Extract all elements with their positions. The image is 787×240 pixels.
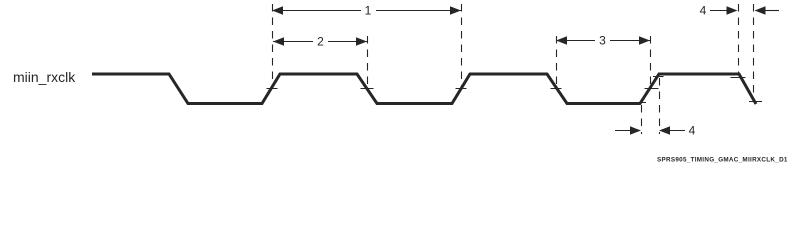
dimension 4 top right tail — [764, 10, 779, 12]
node fall3 mid dashed line — [556, 36, 558, 87]
node rise1 mid dashed line — [272, 4, 274, 87]
svg-text:3: 3 — [599, 34, 606, 48]
dimension 1 right arrowhead — [450, 6, 461, 14]
node rise3 low corner dashed line — [641, 105, 643, 134]
tick fall2 mid — [361, 88, 374, 90]
dimension 4 top left arrowhead — [727, 6, 738, 14]
dimension 4 top left tail — [710, 10, 728, 12]
svg-text:2: 2 — [317, 35, 324, 49]
svg-text:SPRS905_TIMING_GMAC_MIIRXCLK_D: SPRS905_TIMING_GMAC_MIIRXCLK_D1 — [657, 157, 787, 164]
tick rise3 high corner — [653, 76, 664, 78]
tick fall4 high corner — [731, 77, 746, 79]
dimension 2 left arrowhead — [273, 37, 284, 45]
node rise2 mid dashed line — [461, 4, 463, 87]
dimension 3 right arrowhead — [639, 36, 650, 44]
tick fall3 mid — [551, 88, 562, 90]
tick rise2 mid — [456, 88, 467, 90]
wire miin_rxclk waveform — [92, 74, 756, 104]
dimension 4 bottom right arrowhead — [659, 126, 670, 134]
svg-text:miin_rxclk: miin_rxclk — [13, 69, 76, 85]
dimension 4 top right arrowhead — [755, 6, 766, 14]
dimension 3 left arrowhead — [556, 36, 567, 44]
dimension 1 arrow line — [272, 10, 361, 12]
dimension 3 arrow line — [556, 40, 595, 42]
node fall4 low corner dashed line — [753, 4, 755, 100]
node fall4 high corner dashed line — [738, 4, 740, 75]
dimension 4 bottom left arrowhead — [630, 126, 641, 134]
svg-text:1: 1 — [365, 4, 372, 18]
node rise3 mid dashed line — [650, 36, 652, 88]
dimension 2 arrow line — [273, 41, 313, 43]
svg-text:4: 4 — [700, 4, 707, 18]
dimension 2 right arrowhead — [356, 37, 367, 45]
tick fall4 low corner — [749, 101, 762, 103]
node fall2 mid dashed line — [367, 36, 369, 87]
tick rise3 mid — [645, 88, 659, 90]
dimension 4 bottom right tail — [668, 130, 685, 132]
tick rise3 low corner — [635, 102, 646, 104]
tick rise1 mid — [267, 88, 278, 90]
svg-text:4: 4 — [689, 124, 696, 138]
dimension 1 left arrowhead — [272, 6, 283, 14]
node rise3 high corner dashed line — [659, 78, 661, 134]
dimension 4 bottom left tail — [615, 130, 632, 132]
